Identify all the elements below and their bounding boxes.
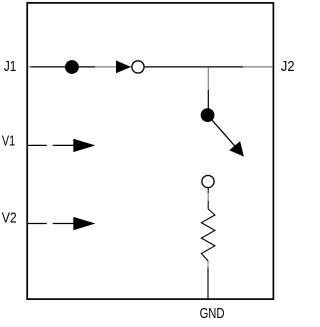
wire contact to resistor [207, 188, 209, 194]
V2 control line segment after gap [53, 223, 75, 225]
wire (grey) tee to J2 edge [243, 66, 273, 68]
V1 control arrow [73, 139, 95, 152]
switch arrow toward J2 contact [116, 61, 131, 74]
device outline box [27, 3, 273, 299]
wire contact to J2 tee [145, 66, 243, 68]
wire (grey) tee drop toward lower switch [207, 68, 209, 90]
wire J1 to switch pole dot [31, 66, 95, 68]
svg-text:GND: GND [200, 306, 225, 322]
wire tee drop to lower pole dot [207, 90, 209, 110]
lower switch arm shaft (open position) [208, 115, 236, 147]
svg-text:J1: J1 [4, 59, 16, 75]
lower switch arrowhead [229, 141, 244, 157]
wire (grey) resistor bottom stub [207, 261, 209, 267]
node pole dot on J1 line [65, 60, 79, 74]
V2 control line segment [28, 223, 47, 225]
lower open contact circle [202, 175, 214, 187]
wire (grey) stub at J1 pin [28, 66, 31, 68]
wire to resistor top [207, 201, 209, 209]
svg-text:J2: J2 [281, 59, 295, 75]
wire (grey) switch arm toward contact [95, 66, 132, 68]
wire (grey) contact-to-resistor middle part [207, 193, 209, 201]
wire resistor to GND at box bottom [207, 267, 209, 298]
open contact circle on J1-J2 line [132, 61, 144, 73]
V1 control line segment after gap [53, 144, 75, 146]
V1 control line segment [28, 144, 47, 146]
lower switch pole dot [201, 108, 215, 122]
svg-text:V1: V1 [2, 134, 15, 150]
resistor R (zigzag) [201, 209, 215, 261]
V2 control arrow [73, 217, 95, 230]
svg-text:V2: V2 [2, 211, 17, 227]
